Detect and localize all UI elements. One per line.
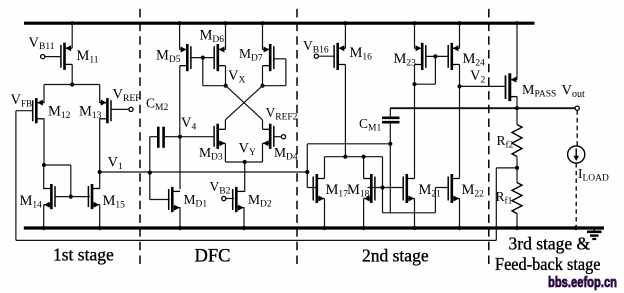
wire M17 drain up to mirror line (324, 157, 326, 179)
wire VY to MD4 source (245, 161, 263, 163)
wire VFB feedback bottom run (16, 239, 496, 241)
transistor MD1 (NMOS) (169, 187, 180, 212)
node M24-VDD junction (457, 21, 461, 25)
transistor M23 (PMOS mirror diode) (415, 43, 426, 70)
wire VDD top supply rail (24, 22, 535, 25)
resistor Rf1 (516, 168, 518, 183)
wire mirror line M17-M18-corner (325, 156, 383, 158)
wire CM1 junction down (389, 144, 391, 213)
node V1/M17 junction (305, 170, 309, 174)
node M15 ground junction (98, 226, 102, 230)
wire V4 to MD3 gate (180, 136, 214, 138)
wire M11 drain to diff pair tail (71, 64, 73, 84)
node VB2 terminal (222, 196, 226, 200)
wire M24 drain down to V2 (459, 65, 461, 87)
stage separator dashed line 2nd/3rd (488, 9, 490, 268)
wire VFB gate lead (16, 110, 34, 112)
wire M23 drain down to M21 (414, 84, 416, 178)
wire M15 source to ground (99, 205, 101, 228)
transistor M18 (NMOS diode) (364, 174, 375, 203)
node MD2 ground junction (242, 226, 246, 230)
svg-text:2nd stage: 2nd stage (362, 246, 429, 266)
wire VB2 to MD2 gate (226, 198, 234, 200)
wire MD3 source to VY (224, 143, 226, 162)
wire M23 diode connection (414, 65, 416, 85)
node Vout/Rf2 junction (515, 106, 519, 110)
node M16/M17 drain junction (343, 155, 347, 159)
wire MD1 source to ground (179, 207, 181, 228)
wire gate line bottom run to M22 (383, 212, 436, 214)
node MD1 ground junction (178, 226, 182, 230)
node V2 junction (457, 84, 461, 88)
node ILOAD ground junction (574, 226, 578, 230)
wire CM2 right plate to V4 (165, 136, 180, 138)
node M23 drain junction (412, 82, 416, 86)
wire CM2 left plate to V1 (150, 136, 157, 138)
wire M15 drain to V1 (99, 172, 101, 189)
transistor MPASS (PMOS pass device) (506, 73, 518, 101)
wire Vout line to terminal (517, 107, 575, 109)
node M23/M24 gate junction (433, 54, 437, 58)
node V4 junction (178, 135, 182, 139)
node tail junction (70, 82, 74, 86)
transistor MD2 (NMOS bias) (233, 187, 244, 212)
wire MD6 source to VDD (225, 23, 227, 49)
node M22 ground junction (457, 226, 461, 230)
wire CM1 junction to V1 node column (307, 143, 390, 145)
wire M13 gate to VREF (110, 108, 129, 110)
node Rf2/Rf1 junction (515, 166, 519, 170)
wire M22 source to ground (459, 199, 461, 229)
node VB16 terminal (314, 54, 318, 58)
wire MD6 drain down to VX (225, 66, 227, 86)
wire tail to M12 source (44, 84, 72, 86)
capacitor CM1 (382, 118, 400, 122)
wire mirror corner down (382, 157, 384, 213)
wire V2 down to M22 drain (459, 86, 461, 178)
node Vout terminal (575, 106, 579, 110)
wire M23-M24 gate tie (425, 55, 449, 57)
wire M18 drain up (363, 157, 365, 179)
transistor M22 (NMOS) (448, 174, 459, 203)
wire MD7 drain down (262, 66, 264, 86)
transistor M11 (PMOS tail) (61, 43, 72, 70)
wire feedback vertical to resistor tap (495, 168, 497, 241)
wire gate junction down to VX (202, 58, 204, 86)
wire M16 source to VDD (344, 23, 346, 48)
node M18 ground junction (362, 226, 366, 230)
transistor MD4 (NMOS diff) (263, 124, 274, 149)
resistor Rf2 (516, 108, 518, 124)
wire M16 drain down to mirror node (344, 65, 346, 157)
wire cross-couple MD7 to MD3 drain (225, 86, 262, 120)
transistor M24 (PMOS mirror) (448, 43, 459, 70)
wire VB16 to M16 gate (318, 55, 334, 57)
node M18 gate junction (380, 185, 384, 189)
node VB11 terminal (41, 55, 45, 59)
node MD7-VDD junction (260, 21, 264, 25)
wire cross-couple VX to MD4 drain (226, 86, 263, 120)
node M14/M15 gate junction (69, 195, 73, 199)
node VREF2 terminal (281, 135, 285, 139)
transistor MD5 (PMOS load) (180, 44, 191, 71)
transistor MD3 (NMOS diff) (214, 124, 225, 149)
node M16-VDD junction (343, 21, 347, 25)
transistor MD6 (PMOS load) (214, 44, 225, 71)
node M17 ground junction (322, 226, 326, 230)
wire MD4 gate to VREF2 (274, 136, 282, 138)
transistor M14 (NMOS mirror diode) (44, 184, 55, 209)
svg-text:DFC: DFC (195, 247, 231, 267)
node CM1 bottom junction (388, 142, 392, 146)
wire M14 diode connection (44, 164, 71, 166)
node MD5/MD6 gate junction (201, 56, 205, 60)
wire VB11 to M11 gate (45, 56, 61, 58)
current source ILOAD (568, 110, 585, 226)
wire MPASS drain to Vout (516, 97, 518, 109)
stage separator dashed line DFC/2nd (296, 9, 298, 268)
wire feedback tap to Rf junction (496, 167, 517, 169)
wire CM1 top plate to Vout line (389, 108, 391, 118)
wire M17 source to ground (324, 199, 326, 229)
wire M18 source to ground (363, 199, 365, 229)
wire MD5 drain down to V4 (179, 66, 181, 137)
node VREF terminal (129, 107, 133, 111)
node VX junction (224, 84, 228, 88)
wire MPASS source to VDD (516, 23, 518, 79)
node CM2/V1/MD1 junction (148, 171, 152, 175)
wire M14-M15 gate tie (54, 196, 90, 198)
node M11-VDD junction (70, 21, 74, 25)
node M18 drain junction (362, 155, 366, 159)
transistor M17 (NMOS) (313, 174, 324, 203)
wire M21 source to ground (414, 199, 416, 229)
node M12/M14 drain junction (42, 163, 46, 167)
node M14 ground junction (42, 226, 46, 230)
wire CM1 bottom plate down (389, 122, 391, 144)
node Rf1 ground junction (515, 226, 519, 230)
ground symbol (587, 230, 602, 240)
wire M14 source to ground (43, 205, 45, 228)
wire M24 source to VDD (459, 23, 461, 48)
wire MD7 gate diode loop (274, 58, 286, 60)
wire MD7 source to VDD (262, 23, 264, 49)
wire M18 gate to M21 gate (367, 187, 403, 189)
node MD6-VDD junction (223, 21, 227, 25)
wire M13 drain down to V1 (99, 118, 101, 172)
wire M11 source to VDD (71, 23, 73, 48)
stage separator dashed line 1st/DFC (139, 9, 141, 268)
node M21 ground junction (412, 226, 416, 230)
wire V2 to MPASS gate (460, 85, 507, 87)
transistor M16 (PMOS bias) (334, 43, 345, 70)
svg-text:bbs.eefop.cn: bbs.eefop.cn (548, 275, 617, 291)
transistor M12 (PMOS input VFB) (33, 98, 44, 123)
node MD5-VDD junction (178, 21, 182, 25)
wire tail to M13 source (72, 84, 100, 86)
node MD7 drain junction (260, 84, 264, 88)
wire MD5 source to VDD (179, 23, 181, 49)
wire VY down to MD2 drain (244, 162, 246, 192)
wire MD2 source to ground (243, 207, 245, 228)
capacitor CM2 (158, 127, 163, 148)
transistor M21 (NMOS) (403, 174, 414, 203)
wire junction down to MD1 gate (149, 173, 151, 200)
node M23-VDD junction (412, 21, 416, 25)
wire V1 horizontal to 2nd stage (100, 171, 308, 173)
wire V1 junction down to M17 gate (306, 172, 308, 188)
transistor MD7 (PMOS diode) (263, 44, 274, 71)
wire MD5-MD6 gate tie (190, 57, 214, 59)
transistor M13 (PMOS input VREF) (100, 98, 111, 123)
svg-text:3rd stage &: 3rd stage & (509, 234, 591, 254)
node VY junction (243, 160, 247, 164)
wire M14 drain up (43, 165, 45, 189)
wire M12 drain down (43, 118, 45, 165)
svg-text:1st stage: 1st stage (53, 245, 114, 265)
wire ground bottom rail (24, 226, 604, 229)
wire M23 source to VDD (414, 23, 416, 48)
svg-text:Feed-back stage: Feed-back stage (495, 254, 601, 274)
transistor M15 (NMOS mirror) (88, 184, 99, 209)
node V1 junction (98, 170, 102, 174)
wire VFB feedback vertical left side (15, 111, 17, 241)
node MPASS-VDD junction (515, 21, 519, 25)
